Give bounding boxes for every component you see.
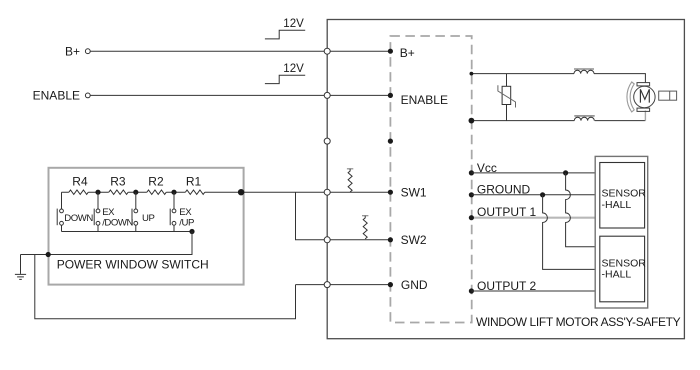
power window switch box bbox=[49, 168, 244, 285]
wire motor top bbox=[471, 74, 645, 83]
svg-text:R1: R1 bbox=[186, 175, 202, 189]
pin dot OUTPUT 2 bbox=[469, 288, 474, 293]
node circle ENABLE on box edge bbox=[324, 92, 330, 98]
svg-text:SW2: SW2 bbox=[401, 233, 427, 247]
svg-text:/DOWN: /DOWN bbox=[102, 218, 133, 229]
svg-text:POWER WINDOW SWITCH: POWER WINDOW SWITCH bbox=[57, 257, 209, 271]
dashed connector box bbox=[390, 36, 471, 323]
wire rail to ground link bbox=[21, 232, 193, 255]
terminal circle ENABLE bbox=[85, 93, 90, 98]
resistor R2 bbox=[147, 190, 166, 194]
12V step symbol (B+) bbox=[265, 18, 305, 39]
wire Vcc bbox=[471, 172, 595, 174]
node dot Vcc junction bbox=[563, 170, 568, 175]
switch EX/DOWN blade bbox=[93, 209, 95, 226]
node dot after R2 bbox=[171, 190, 176, 195]
svg-text:SENSOR: SENSOR bbox=[602, 257, 647, 269]
switch EX/UP blade bbox=[169, 209, 171, 226]
pin dot GND bbox=[388, 282, 393, 287]
terminal circle B+ bbox=[85, 49, 90, 54]
varistor body bbox=[502, 86, 511, 104]
sensor container box bbox=[595, 156, 648, 308]
wire motor bottom gray segment bbox=[644, 111, 646, 121]
wire GROUND branch with hop bbox=[543, 195, 596, 270]
node dot after R3 bbox=[133, 190, 138, 195]
pullup resistor at SW2 bbox=[362, 216, 368, 239]
pin dot motor bottom bbox=[469, 118, 475, 124]
resistor R4 bbox=[69, 190, 88, 194]
resistor R3 bbox=[109, 190, 128, 194]
pin dot SW1 bbox=[388, 190, 393, 195]
svg-text:-HALL: -HALL bbox=[602, 269, 632, 281]
motor M1 bbox=[634, 83, 655, 112]
node dot after R4 bbox=[95, 190, 100, 195]
svg-text:DOWN: DOWN bbox=[64, 213, 93, 224]
switch EX/DOWN contacts bbox=[96, 209, 100, 213]
inductor top coil bbox=[574, 70, 594, 73]
wire B+ bbox=[90, 50, 390, 52]
pin dot B+ bbox=[388, 49, 393, 54]
wire SW2 branch bbox=[296, 192, 391, 240]
wire Vcc branch with hops bbox=[566, 173, 596, 247]
svg-text:ENABLE: ENABLE bbox=[401, 93, 448, 107]
svg-text:WINDOW LIFT MOTOR ASS'Y-SAFETY: WINDOW LIFT MOTOR ASS'Y-SAFETY bbox=[476, 315, 681, 329]
node circle SW2 on box edge bbox=[324, 237, 330, 243]
node dot GROUND junction bbox=[540, 192, 545, 197]
node circle SW1 on box edge bbox=[324, 189, 330, 195]
pullup resistor at SW1 bbox=[347, 169, 353, 192]
pin dot ENABLE bbox=[388, 93, 393, 98]
svg-text:ENABLE: ENABLE bbox=[33, 89, 80, 103]
wire ENABLE bbox=[90, 94, 390, 96]
sensor-hall U2 box bbox=[600, 236, 645, 302]
switch DOWN contacts bbox=[60, 209, 64, 213]
wire switch bottom rail bbox=[62, 231, 193, 233]
wire GND pin line bbox=[296, 284, 391, 286]
svg-text:R2: R2 bbox=[148, 175, 164, 189]
12V step symbol (ENABLE) bbox=[265, 63, 305, 83]
svg-text:GND: GND bbox=[401, 278, 428, 292]
inductor bottom coil bbox=[574, 117, 594, 120]
ground bbox=[15, 255, 26, 280]
wire GROUND bbox=[471, 194, 595, 196]
svg-text:-HALL: -HALL bbox=[602, 199, 632, 211]
svg-text:R4: R4 bbox=[72, 175, 88, 189]
pin dot motor top bbox=[470, 72, 474, 76]
wire OUTPUT 1 (gray) bbox=[471, 217, 595, 219]
svg-text:B+: B+ bbox=[400, 46, 415, 60]
svg-text:SW1: SW1 bbox=[401, 186, 427, 200]
switch UP contacts bbox=[134, 209, 138, 213]
svg-text:OUTPUT 1: OUTPUT 1 bbox=[477, 205, 536, 219]
pin dot GROUND bbox=[469, 192, 474, 197]
varistor branch wire bbox=[506, 74, 508, 121]
motor magnet crescent bbox=[627, 82, 634, 112]
svg-text:SENSOR: SENSOR bbox=[602, 187, 647, 199]
svg-text:/UP: /UP bbox=[179, 218, 194, 229]
outer solid box: window lift motor assembly enclosure bbox=[327, 20, 684, 339]
switch UP blade bbox=[131, 209, 133, 226]
motor terminal connector bbox=[659, 91, 677, 100]
pin dot OUTPUT 1 bbox=[469, 215, 474, 220]
wire switch drops bottom bbox=[62, 225, 175, 231]
resistor R1 bbox=[185, 190, 204, 194]
node circle B+ on box edge bbox=[324, 48, 330, 54]
node dot at switch box right edge bbox=[238, 189, 244, 195]
svg-text:12V: 12V bbox=[283, 18, 304, 30]
wire OUTPUT 2 bbox=[471, 290, 595, 292]
switch EX/UP contacts bbox=[172, 209, 176, 213]
varistor diagonal bbox=[498, 85, 516, 107]
pin dot Vcc bbox=[469, 170, 474, 175]
node dot at box left edge bbox=[46, 252, 51, 257]
pin dot SW2 bbox=[388, 237, 393, 242]
inductor top core bar bbox=[574, 68, 594, 70]
sensor-hall U1 box bbox=[600, 163, 645, 229]
svg-text:B+: B+ bbox=[65, 44, 80, 58]
wire resistor chain / SW1 line bbox=[62, 191, 391, 193]
svg-text:R3: R3 bbox=[110, 175, 126, 189]
wire ground to bottom rail bbox=[35, 255, 296, 319]
inductor bottom core bar bbox=[574, 115, 594, 117]
wire switch drops top bbox=[62, 192, 175, 209]
node circle mid on box edge bbox=[324, 138, 330, 144]
svg-text:UP: UP bbox=[142, 213, 154, 224]
node dot bottom rail bbox=[189, 229, 194, 234]
svg-text:12V: 12V bbox=[283, 63, 304, 75]
node circle GND on box edge bbox=[324, 282, 330, 288]
pin dot mid bbox=[388, 139, 393, 144]
wire motor bottom bbox=[471, 120, 645, 122]
switch DOWN blade bbox=[56, 209, 58, 226]
